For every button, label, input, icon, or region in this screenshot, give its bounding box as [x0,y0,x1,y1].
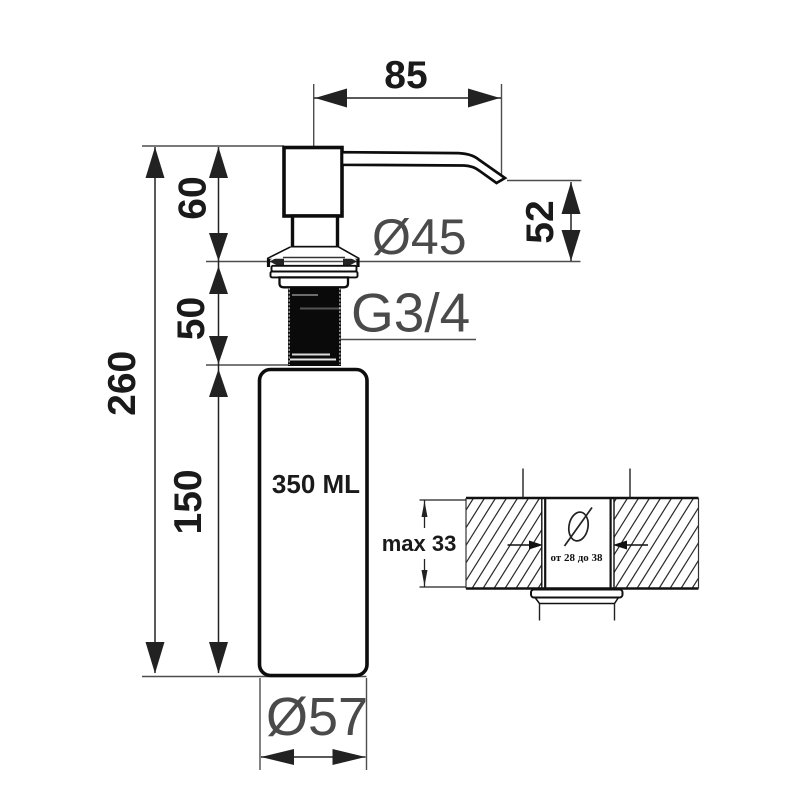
svg-text:Ø57: Ø57 [266,687,368,747]
svg-text:50: 50 [170,297,213,340]
svg-text:max 33: max 33 [382,531,457,556]
svg-text:350 ML: 350 ML [272,469,360,499]
svg-text:G3/4: G3/4 [351,282,470,344]
svg-text:85: 85 [384,54,427,97]
svg-text:60: 60 [172,176,215,219]
svg-text:150: 150 [167,469,210,534]
svg-text:Ø45: Ø45 [372,209,467,265]
svg-text:от 28 до 38: от 28 до 38 [550,552,603,564]
svg-text:52: 52 [519,200,562,243]
svg-text:260: 260 [101,351,144,416]
